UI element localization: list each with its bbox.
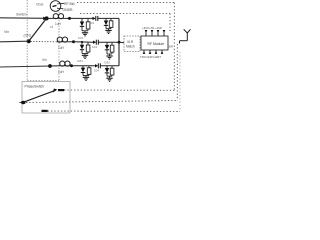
dashed net line GND ring — [80, 12, 170, 14]
row1 shunt group 2 : diode D2 — [105, 18, 107, 20]
svg-text:GNDR.: GNDR. — [63, 8, 74, 12]
top pin ticks — [145, 30, 147, 31]
row2 capacitor C4 — [110, 45, 114, 52]
switch arm S1 diagonal — [29, 19, 47, 41]
row2 ground 2 — [107, 53, 112, 55]
wire — [50, 65, 60, 67]
wire input line 3 — [0, 66, 50, 67]
node A junction dot — [45, 16, 49, 20]
svg-text:1uH: 1uH — [58, 46, 65, 50]
phase switch arm — [25, 90, 56, 102]
wire row1 — [70, 17, 93, 19]
row2 shunt group 2 : diode D4 — [106, 42, 108, 45]
phase switch box — [22, 82, 70, 114]
row3 shunt group 1 : diode D5 — [82, 66, 84, 68]
svg-text:GB1: GB1 — [77, 59, 83, 63]
svg-text:103: 103 — [78, 36, 83, 40]
arrowhead into node A — [43, 17, 47, 21]
bottom pins — [143, 50, 145, 54]
row2 capacitor C3 — [86, 45, 90, 52]
row3 capacitor C5 — [87, 68, 91, 75]
row1 series diode-cap — [93, 17, 96, 20]
wire input line 2 Vin — [0, 40, 29, 43]
svg-text:Switch: Switch — [16, 13, 27, 17]
row1 ground 2 — [106, 28, 111, 30]
svg-text:c1: c1 — [50, 25, 54, 29]
row1 capacitor C2 — [109, 21, 113, 28]
bus vertical — [118, 18, 120, 65]
svg-text:RF Module: RF Module — [148, 42, 165, 46]
phase switch pole dot — [21, 101, 25, 104]
RF module U1 box — [141, 36, 168, 50]
row3 ground 1 — [83, 75, 89, 77]
node row2 dot — [72, 40, 75, 43]
dashed net line RF Bld top — [77, 2, 174, 4]
antenna feed wire — [180, 40, 188, 42]
node dot — [70, 64, 73, 67]
dashed vertical right to antenna — [176, 44, 178, 101]
svg-text:XLR: XLR — [127, 40, 134, 44]
arm arrowhead — [53, 89, 58, 93]
svg-text:50R: 50R — [168, 45, 173, 49]
dashed net from upper contact — [64, 89, 174, 91]
svg-text:Match: Match — [126, 45, 135, 49]
shield symbol leads — [57, 2, 64, 5]
row1 shunt group 1 : diode D1 — [81, 18, 83, 21]
node row3 dot — [48, 64, 52, 68]
svg-text:1uH: 1uH — [55, 22, 62, 26]
svg-text:1uH: 1uH — [58, 70, 65, 74]
shield symbol circle — [50, 1, 61, 12]
svg-text:PhaseSwitch: PhaseSwitch — [25, 85, 45, 89]
svg-text:104: 104 — [94, 69, 99, 73]
row3 capacitor C6 — [110, 68, 114, 75]
node row1 dot — [68, 17, 71, 20]
shield symbol inner tick — [53, 6, 57, 7]
wire dashed row2 from pole to L2 — [31, 41, 58, 43]
svg-text:Vin: Vin — [4, 30, 9, 34]
dashed vertical right outer — [173, 3, 175, 91]
dashed net from lower contact — [48, 110, 180, 113]
row2 ground 1 — [82, 53, 88, 55]
wire row2 — [74, 41, 94, 43]
inductor L3 row3 — [60, 61, 65, 66]
contact bar upper — [58, 89, 64, 91]
inductor L1 row1 — [47, 17, 53, 19]
junction bus to match — [118, 41, 121, 44]
inductor L2 row2 — [57, 37, 62, 42]
row2 shunt group 1 : diode D3 — [81, 42, 83, 45]
shield boundary dashed horizontal — [27, 80, 59, 82]
row2 series diode-cap — [93, 41, 96, 44]
wire to matching network — [119, 41, 124, 43]
antenna ANT1 — [184, 29, 188, 33]
wire row3 — [72, 65, 96, 67]
shield boundary dashed vertical left — [26, 0, 28, 81]
row1 capacitor C1 — [86, 22, 90, 29]
svg-text:104: 104 — [89, 21, 94, 25]
shield boundary dashed vertical mid — [58, 12, 60, 81]
wire input line 1 — [0, 17, 44, 20]
switch pole dot S1 — [27, 39, 31, 43]
contact bar lower — [42, 110, 48, 112]
dashed net from pole — [26, 101, 177, 103]
junction dot row2 branch — [81, 41, 83, 43]
bottom pin ticks — [143, 53, 145, 54]
dashed vertical right inner stub — [169, 13, 171, 31]
svg-text:GB2: GB2 — [104, 61, 110, 65]
svg-text:TXD GND UART: TXD GND UART — [140, 55, 161, 59]
svg-text:Vbat: Vbat — [36, 3, 43, 7]
svg-text:104: 104 — [92, 45, 97, 49]
dashed vertical right outermost — [179, 52, 181, 112]
top pins — [145, 31, 147, 36]
row1 ground 1 — [82, 30, 88, 32]
svg-text:RF Bld: RF Bld — [64, 2, 74, 6]
matching network box — [124, 36, 140, 52]
row3 ground 2 — [107, 75, 112, 77]
row3 series diode-cap — [95, 64, 98, 67]
row3 shunt group 2 : diode D6 — [106, 66, 108, 68]
svg-text:Vin: Vin — [42, 58, 47, 62]
phase switch pole lead — [20, 102, 24, 104]
svg-text:+3V3 LTE +1V8: +3V3 LTE +1V8 — [142, 26, 162, 30]
